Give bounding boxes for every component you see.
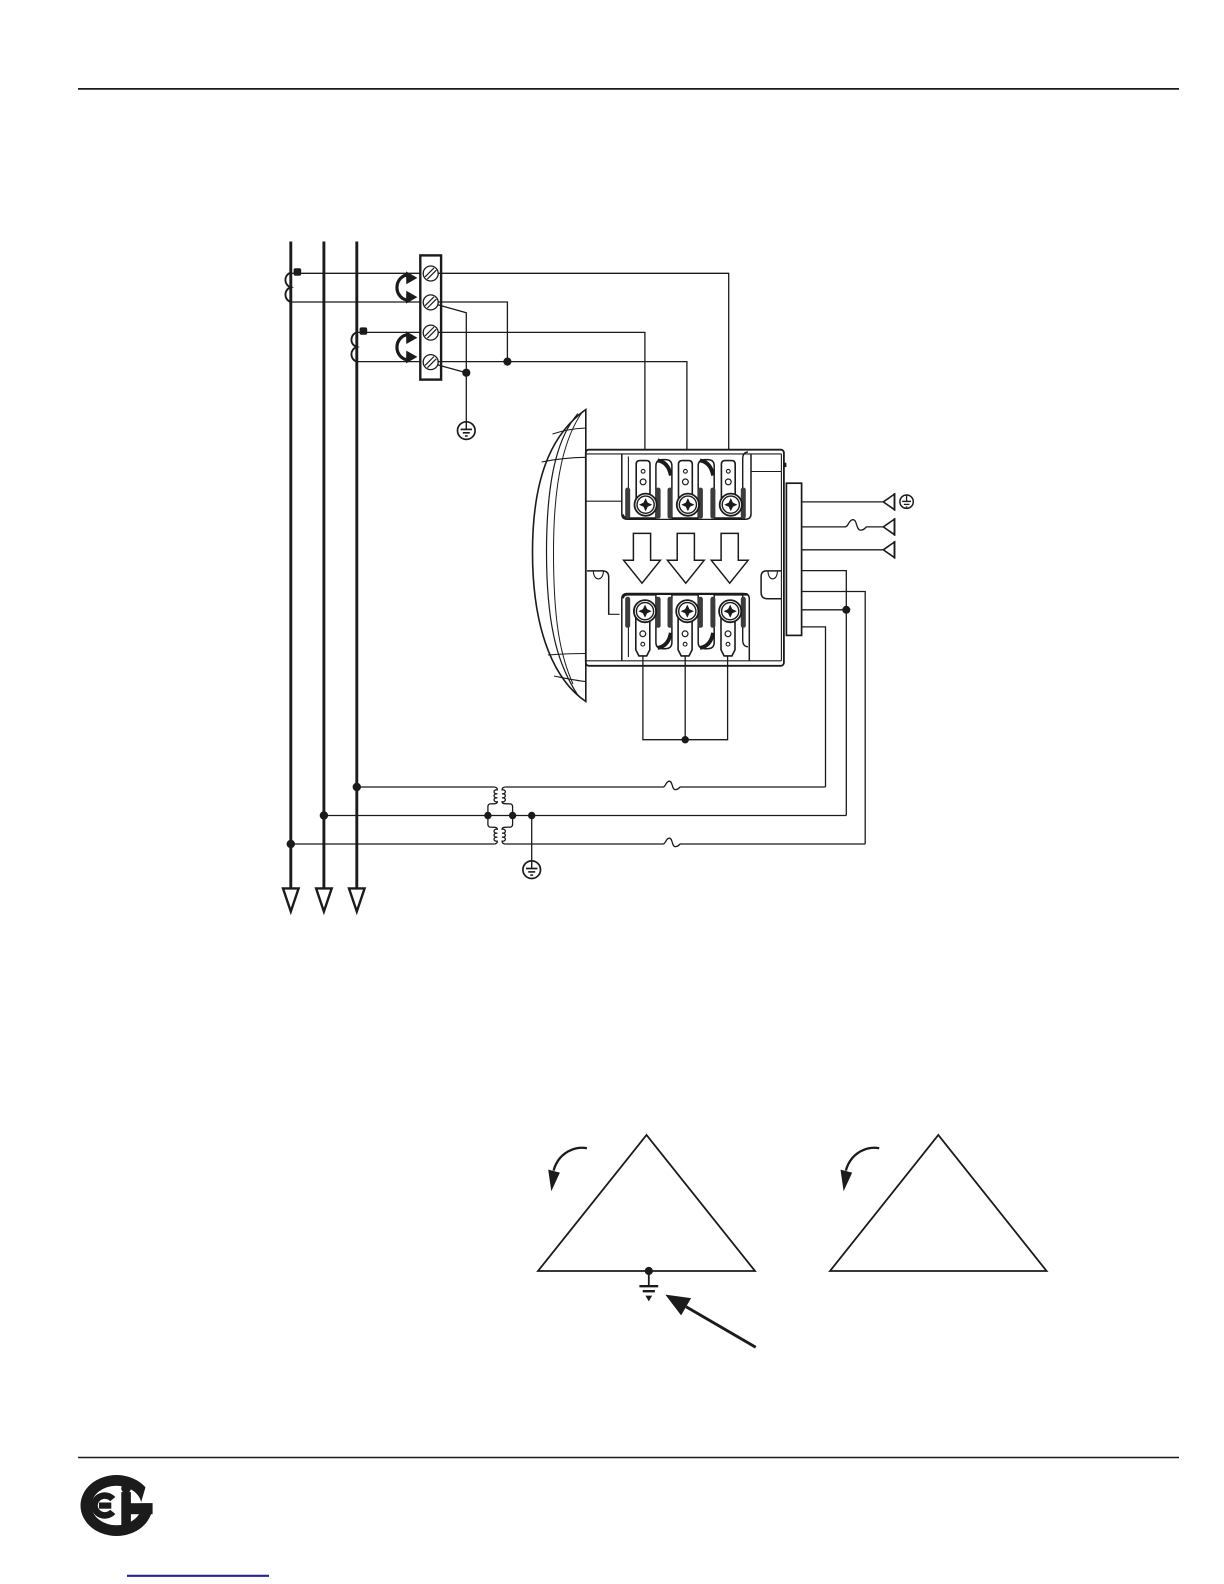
annotation arrow to delta ground [665,1295,755,1348]
meter M1 body [586,450,784,666]
wire CT2 lead H [357,331,423,333]
meter top clamp bars 3 [710,488,745,519]
meter case tick [783,463,786,467]
load arrow phase A [283,888,299,911]
wire phase C to PT1 [357,786,494,788]
meter bottom blade 3 [721,617,735,656]
wire TB1-3 to meter top left [438,332,645,460]
meter top blade 3 [721,461,735,505]
flow arrow 3 [711,533,748,583]
rotation arrow delta 1 [548,1148,587,1192]
meter bottom right wall [743,595,748,647]
junction PT secondary common [509,812,516,819]
meter bottom blade 2 [678,617,692,656]
link underline [127,1575,269,1577]
wire Vb sense [802,571,847,816]
meter top screw 2 [677,494,699,516]
wire Vc sense [802,592,866,845]
junction ground leads [462,369,470,377]
PT1 secondary winding [502,787,512,816]
meter bottom separator paddle 1 [656,595,672,649]
wire TB1-2 to ground [438,305,467,422]
meter bottom screw 3 [719,600,741,622]
wire Va sense [802,627,826,787]
flow arrow 1 [624,533,661,583]
wire TB1-1 to meter top right [438,273,729,460]
meter side connector tab [786,483,801,635]
junction TB1-4/TB1-2 [503,358,511,366]
wire TB1-4 to ground [438,365,467,373]
meter bottom screw 2 [676,600,698,622]
terminal lug shield [883,493,894,511]
junction phase A tap [287,840,295,848]
wire TB1-4 to meter top middle [438,362,687,461]
wire PT1 secondary to meter with break [505,781,825,789]
junction PT primary common [484,812,491,819]
delta symbol 2 [830,1135,1047,1271]
CT 2 winding [351,332,356,361]
load arrow phase C [349,888,365,911]
flow arrow 2 [667,533,704,583]
meter top screw 3 [720,494,742,516]
wire PT common [324,815,846,817]
PT2 secondary winding [502,816,512,845]
PT1 primary winding [488,787,497,816]
PT2 primary winding [488,816,497,845]
meter top screw 1 [635,494,657,516]
phase line A [289,242,292,889]
load arrow phase B [316,888,332,911]
wire PT2 secondary to meter with break [505,838,865,846]
meter side hook left [587,571,609,614]
terminal lug comm B [883,541,894,559]
twist arrow CT1 leads [397,271,417,303]
meter bottom separator paddle 2 [698,595,714,649]
wire comm line with break [802,520,884,530]
CT 1 winding [285,273,290,302]
meter bottom terminal cavity [622,594,750,661]
rotation arrow delta 2 [841,1148,880,1192]
meter bottom clamp bars 1 [625,597,660,628]
wire comm line B [802,549,884,551]
wire CT2 lead L [357,361,423,363]
wire shield drain [802,501,884,503]
shorting terminal block TB1 [420,255,441,379]
terminal lug comm A [883,518,894,536]
wire CT1 lead L [291,301,423,303]
meter top right wall [743,452,748,519]
meter bottom blade 1 [636,617,650,656]
TB1 screw 3 [423,325,438,340]
meter top blade 1 [636,461,650,505]
wire meter bottom jumper [643,656,728,740]
footer rule [78,1457,1179,1459]
junction delta 1 ground [645,1267,653,1275]
ground symbol delta 1 [639,1271,658,1301]
CT 1 polarity mark [294,268,302,275]
meter top clamp bars 1 [625,488,660,519]
header rule [78,88,1179,90]
meter top blade 2 [679,461,693,505]
junction ground tap [528,812,535,819]
twist arrow CT2 leads [397,331,417,363]
meter bottom screw 1 [634,600,656,622]
TB1 screw 4 [423,355,438,370]
EIG logo [81,1475,155,1536]
delta symbol 1 [538,1135,755,1271]
junction phase C tap [353,783,361,791]
TB1 screw 2 [423,295,438,310]
ground symbol PT secondary [523,861,541,879]
junction bottom jumper [682,736,689,743]
junction phase B tap [320,811,328,819]
meter bottom clamp bars 3 [710,597,745,628]
phase line C [355,242,358,889]
meter bottom clamp bars 2 [668,597,703,628]
meter M1 bezel [533,410,586,702]
CT 2 polarity mark [360,327,368,334]
meter top terminal cavity [622,454,751,519]
meter top separator paddle 2 [698,460,714,519]
wire TB1-2 jumper down [438,302,507,362]
meter side hook right [761,571,782,599]
wire phase A to PT2 [291,843,494,845]
phase line B [322,242,325,889]
wire Vb aux [802,609,847,611]
ground symbol CT circuit [458,422,476,440]
meter top separator paddle 1 [656,460,672,519]
TB1 screw 1 [423,266,438,281]
wire CT1 lead H [291,272,423,274]
ground symbol shield [900,495,913,508]
wire ground tap [531,816,533,862]
junction Vb [842,606,850,614]
meter top clamp bars 2 [668,488,703,519]
